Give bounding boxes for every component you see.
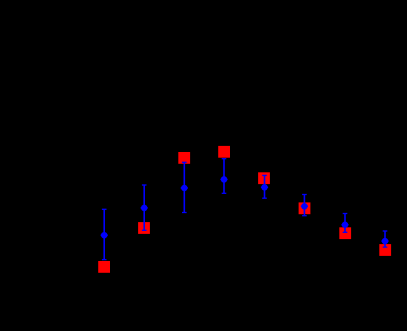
blue error bar E6 [301, 195, 308, 216]
blue error bar E1 [101, 209, 108, 259]
red square marker S5 [258, 172, 270, 184]
blue error bar E5 [261, 175, 268, 198]
blue error bar E8 [381, 231, 388, 247]
red square marker S8 [379, 244, 391, 256]
red square marker S2 [138, 222, 150, 234]
blue error bar E2 [141, 185, 148, 230]
red square marker S6 [299, 202, 311, 214]
red square marker S4 [218, 146, 230, 158]
red square marker S1 [98, 261, 110, 273]
blue error bar E3 [181, 162, 188, 212]
red square marker S7 [339, 227, 351, 239]
blue error bar E4 [220, 159, 227, 194]
red square marker S3 [178, 152, 190, 164]
blue error bar E7 [341, 214, 348, 233]
